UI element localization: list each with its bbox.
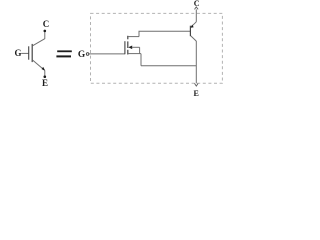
wire emitter vertical (left IGBT) <box>44 70 46 75</box>
wire bottom rail to emitter line <box>141 65 196 67</box>
dashed equivalent-circuit box <box>91 13 223 83</box>
svg-text:E: E <box>42 78 48 88</box>
channel segment middle (MOSFET body) <box>127 41 129 48</box>
wire collector diagonal (left IGBT) <box>33 39 45 46</box>
svg-text:C: C <box>43 19 50 29</box>
emitter arrowhead (left IGBT) <box>42 67 46 71</box>
wire gate lead (left IGBT) <box>21 52 28 54</box>
wire drain stub (MOSFET) <box>128 36 139 38</box>
wire drain to base (top horizontal) <box>139 30 191 32</box>
wire body-to-source vertical <box>139 47 141 53</box>
gate bar (MOSFET) <box>124 41 126 54</box>
channel segment bottom (MOSFET source) <box>127 50 129 55</box>
equals sign <box>57 50 72 52</box>
wire source drop vertical <box>140 54 142 66</box>
svg-text:G: G <box>14 48 21 58</box>
base bar (PNP) <box>189 26 191 37</box>
wire source stub (MOSFET) <box>128 53 141 55</box>
wire drain rise vertical <box>138 31 140 36</box>
svg-text:G: G <box>78 50 86 60</box>
wire collector vertical (left IGBT) <box>44 32 46 39</box>
gate bar (left IGBT) <box>28 46 30 59</box>
E terminal chevron arrow (down) <box>195 83 199 86</box>
wire emitter vertical up to C <box>195 9 197 22</box>
channel segment top (MOSFET drain) <box>127 36 129 40</box>
channel bar (left IGBT) <box>31 44 33 62</box>
emitter arrowhead (PNP) <box>191 25 194 28</box>
wire collector vertical down to E <box>195 41 197 83</box>
C terminal chevron arrow (up) <box>195 7 199 9</box>
svg-text:E: E <box>194 89 199 98</box>
wire body stub (MOSFET) <box>132 46 140 48</box>
svg-text:C: C <box>194 0 200 8</box>
wire emitter diagonal (left IGBT) <box>33 60 45 70</box>
node E terminal dot (left IGBT) <box>44 75 47 78</box>
collector diagonal (PNP) <box>191 36 197 41</box>
wire gate lead (MOSFET) <box>89 53 125 55</box>
gate terminal circle <box>86 53 89 56</box>
body arrowhead (MOSFET) <box>128 46 132 50</box>
node C terminal dot (left IGBT) <box>44 30 47 33</box>
emitter diagonal (PNP) <box>191 22 197 27</box>
